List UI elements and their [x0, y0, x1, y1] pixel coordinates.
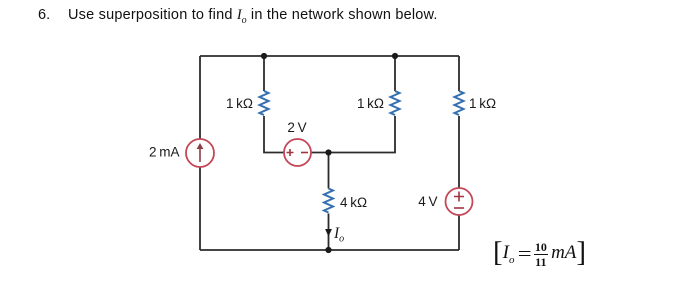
resistor 1 kOhm (right, top) — [455, 91, 464, 115]
svg-text:2 V: 2 V — [287, 120, 306, 135]
wire: from 2V source right to middle node and on to R2 bottom — [311, 116, 395, 153]
answer text [Io = 10/11 mA] — [493, 233, 586, 268]
wire: R2 top lead — [394, 56, 396, 91]
resistor 4 kOhm (middle branch) — [324, 189, 333, 213]
svg-text:4 kΩ: 4 kΩ — [340, 195, 367, 210]
wire: right rail between 1k resistor and 4V source — [458, 116, 460, 188]
wire: middle node down to 4k resistor — [328, 153, 330, 189]
wire: left rail lower (from 2mA source) — [199, 167, 201, 250]
voltage source 2 V (circle) — [284, 139, 311, 166]
wire: left rail upper (to 2mA source) — [199, 56, 201, 139]
node dot bottom rail / 4k branch — [325, 247, 331, 253]
svg-text:2 mA: 2 mA — [149, 145, 179, 160]
voltage source 4 V (circle) — [446, 188, 473, 215]
wire: right rail upper lead to 1k resistor — [458, 56, 460, 91]
node dot middle (2V - 4k junction) — [325, 149, 331, 155]
wire: bottom rail — [200, 249, 459, 251]
resistor 1 kOhm (left, top) — [260, 91, 269, 115]
2V plus symbol — [287, 149, 294, 156]
svg-text:Io: Io — [333, 225, 344, 245]
problem title text — [38, 7, 50, 23]
svg-text:1 kΩ: 1 kΩ — [469, 96, 496, 111]
current source 2 mA arrow — [199, 148, 201, 162]
node dot at top rail / R2 — [392, 53, 398, 59]
svg-text:1 kΩ: 1 kΩ — [357, 96, 384, 111]
current source 2 mA (circle) — [186, 139, 214, 167]
resistor 1 kOhm (middle, top) — [391, 91, 400, 115]
svg-text:1 kΩ: 1 kΩ — [226, 96, 253, 111]
node dot at top rail / R1 — [261, 53, 267, 59]
2V minus symbol — [301, 152, 308, 154]
wire: R1 bottom lead down and right to 2V source — [264, 116, 284, 153]
wire: 4k resistor bottom lead to bottom rail — [328, 214, 330, 251]
wire: top rail — [200, 55, 459, 57]
wire: right rail below 4V source — [458, 215, 460, 250]
4V minus symbol — [454, 207, 464, 209]
4V plus symbol — [454, 192, 464, 202]
wire: R1 top lead — [263, 56, 265, 91]
Io current arrowhead on 4k bottom lead — [325, 229, 332, 237]
svg-text:4 V: 4 V — [418, 194, 437, 209]
